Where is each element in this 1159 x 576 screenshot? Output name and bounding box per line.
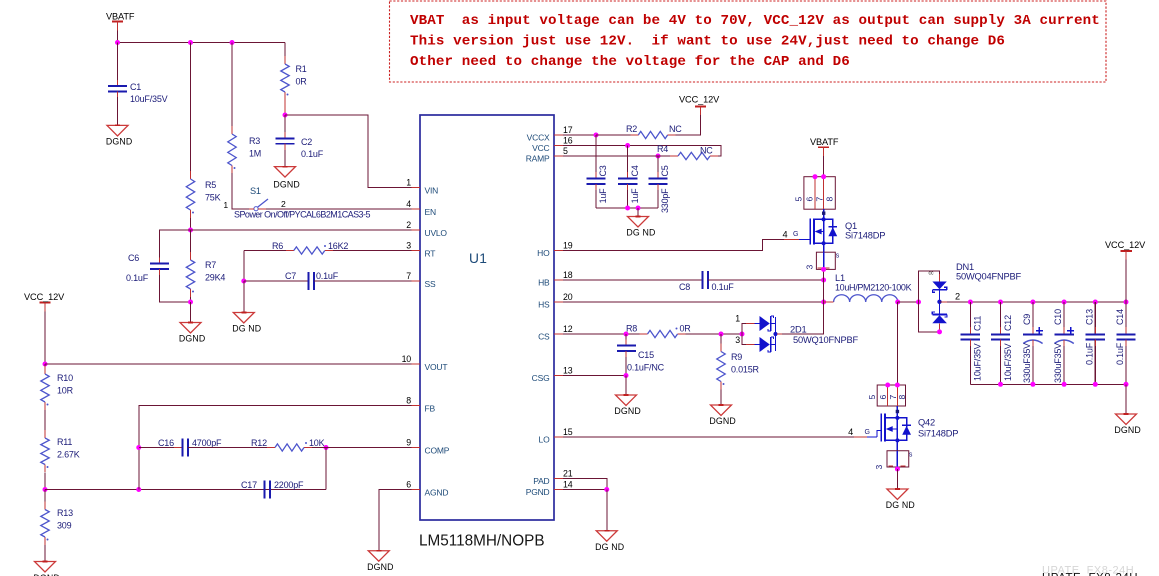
svg-text:UPATE FX8-24H: UPATE FX8-24H xyxy=(1042,573,1138,576)
svg-text:15: 15 xyxy=(563,427,573,437)
wire output rail xyxy=(970,301,1126,303)
wire VBATF bus xyxy=(118,42,286,44)
wire C3 drop xyxy=(595,135,597,179)
capacitor C3 xyxy=(586,178,605,180)
power VCC_12V (out) xyxy=(1121,250,1132,252)
capacitor C14 xyxy=(1124,300,1129,305)
pin 10 VOUT xyxy=(412,363,421,365)
svg-text:This version just use 12V. if: This version just use 12V. if want to us… xyxy=(410,34,1005,50)
ground DGND (C3C4C5) xyxy=(628,217,649,228)
wire C2 bottom xyxy=(284,144,286,167)
wire R11 bottom xyxy=(44,473,46,490)
svg-text:R9: R9 xyxy=(731,352,742,362)
svg-text:20: 20 xyxy=(563,292,573,302)
svg-text:VBATF: VBATF xyxy=(810,137,839,147)
svg-text:5: 5 xyxy=(867,395,877,400)
wire C15 top xyxy=(625,334,627,346)
svg-text:NC: NC xyxy=(700,146,713,156)
capacitor C9 xyxy=(1030,300,1035,305)
svg-text:RT: RT xyxy=(425,249,436,259)
wire VCCX-R2 xyxy=(596,134,630,136)
wire COMP xyxy=(312,447,412,449)
node bus-R5 xyxy=(188,40,193,45)
pin 2 UVLO xyxy=(412,229,421,231)
svg-text:4: 4 xyxy=(783,230,788,240)
node L1-Q42 xyxy=(895,300,900,305)
wire R1 top xyxy=(284,43,286,57)
node bus-C1 xyxy=(115,40,120,45)
wire C16 left xyxy=(139,447,183,449)
power VBATF (input) xyxy=(112,20,123,22)
node FB-C16 xyxy=(136,445,141,450)
svg-text:S1: S1 xyxy=(250,186,261,196)
svg-text:R3: R3 xyxy=(249,136,260,146)
svg-text:6: 6 xyxy=(406,480,411,490)
pin 1 VIN xyxy=(412,187,421,189)
svg-text:1uF: 1uF xyxy=(598,188,608,204)
svg-text:10uF/35V: 10uF/35V xyxy=(973,343,983,381)
svg-text:HO: HO xyxy=(537,248,550,258)
svg-text:Q42: Q42 xyxy=(918,418,935,428)
svg-text:SPower On/Off/PYCAL6B2M1CAS3-5: SPower On/Off/PYCAL6B2M1CAS3-5 xyxy=(234,210,370,220)
pin 20 HS xyxy=(554,301,563,303)
wire SS right xyxy=(314,280,412,282)
svg-text:16: 16 xyxy=(563,136,573,146)
svg-text:2D1: 2D1 xyxy=(790,325,806,335)
svg-text:8: 8 xyxy=(897,395,907,400)
wire C1 bottom xyxy=(117,91,119,125)
svg-text:17: 17 xyxy=(563,125,573,135)
wire R9 top xyxy=(720,334,722,344)
svg-text:R7: R7 xyxy=(205,260,216,270)
capacitor C5 xyxy=(648,178,667,180)
wire C5 drop xyxy=(657,156,659,179)
capacitor C10 xyxy=(1062,300,1067,305)
svg-text:C12: C12 xyxy=(1003,315,1013,331)
svg-text:C14: C14 xyxy=(1115,309,1125,325)
svg-text:R4: R4 xyxy=(657,144,668,154)
svg-text:10R: 10R xyxy=(57,386,74,396)
capacitor C8 xyxy=(702,271,704,289)
ground DGND (C15) xyxy=(616,395,637,406)
svg-text:2: 2 xyxy=(406,220,411,230)
svg-text:50WQ04FNPBF: 50WQ04FNPBF xyxy=(956,272,1021,282)
wire VIN route xyxy=(285,115,412,188)
svg-text:2: 2 xyxy=(955,292,960,302)
svg-text:DGND: DGND xyxy=(273,180,300,190)
svg-text:0.1uF: 0.1uF xyxy=(1115,342,1125,365)
svg-text:CSG: CSG xyxy=(532,373,550,383)
resistor R13 xyxy=(44,502,46,510)
svg-text:VOUT: VOUT xyxy=(425,362,448,372)
svg-text:C3: C3 xyxy=(598,165,608,176)
transistor Q42 drain box xyxy=(877,385,905,406)
svg-text:VCC_12V: VCC_12V xyxy=(24,292,65,302)
pin 18 HB xyxy=(554,279,563,281)
svg-text:C8: C8 xyxy=(679,282,690,292)
svg-text:330uF35V: 330uF35V xyxy=(1022,343,1032,383)
resistor R6 xyxy=(286,250,294,252)
pin 3 RT xyxy=(412,250,421,252)
svg-text:LM5118MH/NOPB: LM5118MH/NOPB xyxy=(419,533,545,550)
node FB-bottom xyxy=(136,487,141,492)
svg-text:R2: R2 xyxy=(626,124,637,134)
svg-text:R13: R13 xyxy=(57,508,73,518)
ground DGND (C1) xyxy=(107,125,128,135)
svg-text:0.1uF: 0.1uF xyxy=(301,149,324,159)
wire LO xyxy=(563,436,854,438)
svg-text:5: 5 xyxy=(794,197,804,202)
svg-text:VCC: VCC xyxy=(532,143,549,153)
svg-text:R8: R8 xyxy=(626,324,637,334)
wire EN xyxy=(266,208,412,210)
resistor R3 xyxy=(231,126,233,134)
svg-text:10uF/35V: 10uF/35V xyxy=(130,94,168,104)
wire R13 bottom xyxy=(44,545,46,562)
svg-text:FB: FB xyxy=(425,404,436,414)
node bus-R3 xyxy=(230,40,235,45)
svg-text:NC: NC xyxy=(669,124,682,134)
svg-text:R6: R6 xyxy=(272,241,283,251)
power VCC_12V (top) xyxy=(695,105,706,107)
wire UVLO xyxy=(191,229,412,231)
resistor R8 xyxy=(640,333,648,335)
ground DGND (R9) xyxy=(711,405,732,416)
wire bottom row xyxy=(45,489,265,491)
wire caprail gnd stub xyxy=(1125,384,1127,414)
wire FB xyxy=(139,406,412,490)
ground DGND (R7/C6) xyxy=(180,323,201,334)
svg-text:6: 6 xyxy=(805,197,815,202)
node COMP junction xyxy=(324,445,329,450)
svg-text:0.1uF: 0.1uF xyxy=(1084,342,1094,365)
svg-text:4: 4 xyxy=(848,427,853,437)
svg-text:DG ND: DG ND xyxy=(626,228,655,238)
pin 9 COMP xyxy=(412,447,421,449)
wire R5 bottom xyxy=(190,218,192,230)
svg-text:VCC_12V: VCC_12V xyxy=(679,95,720,105)
svg-text:C15: C15 xyxy=(638,350,654,360)
svg-text:R5: R5 xyxy=(205,180,216,190)
transistor Q1 source box xyxy=(823,243,825,252)
svg-text:330pF: 330pF xyxy=(660,188,670,213)
node 2D1 junction xyxy=(740,332,745,337)
diode 2D1 anode wires xyxy=(742,324,746,335)
wire C16-R12 xyxy=(188,447,267,449)
resistor R1 xyxy=(284,56,286,64)
svg-text:3: 3 xyxy=(735,335,740,345)
node DN1 anode hook xyxy=(916,300,921,305)
transistor Q42 source box xyxy=(896,440,898,450)
svg-text:DG ND: DG ND xyxy=(232,324,261,334)
node CS-C15 xyxy=(624,332,629,337)
wire R13 top xyxy=(44,490,46,502)
wire C6 branch xyxy=(160,230,191,264)
node R1-C2-VIN xyxy=(283,113,288,118)
svg-text:8: 8 xyxy=(406,396,411,406)
svg-text:G: G xyxy=(793,231,798,238)
resistor R2 xyxy=(630,134,638,136)
wire DN1 out xyxy=(940,301,971,303)
svg-text:10uF/35V: 10uF/35V xyxy=(1003,343,1013,381)
svg-text:Q1: Q1 xyxy=(845,221,857,231)
wire VCCX xyxy=(563,134,596,136)
svg-text:R11: R11 xyxy=(57,437,72,447)
capacitor C17 xyxy=(264,481,266,499)
svg-text:12: 12 xyxy=(563,324,573,334)
wire RAMP-R4 xyxy=(650,155,670,157)
svg-text:C9: C9 xyxy=(1022,314,1032,325)
svg-text:cc: cc xyxy=(929,271,935,277)
svg-text:VCCX: VCCX xyxy=(527,132,550,142)
resistor R7 xyxy=(190,252,192,260)
svg-text:4700pF: 4700pF xyxy=(192,438,222,448)
svg-text:7: 7 xyxy=(406,271,411,281)
node UVLO junction xyxy=(188,228,193,233)
svg-text:L1: L1 xyxy=(835,273,845,283)
svg-text:18: 18 xyxy=(563,270,573,280)
resistor R9 xyxy=(720,344,722,352)
resistor R10 xyxy=(44,366,46,374)
wire C6 bottom xyxy=(160,269,191,302)
wire VCC12 out drop xyxy=(1125,260,1127,303)
capacitor C6 xyxy=(150,263,169,265)
power VBATF (Q1) xyxy=(818,146,829,148)
svg-text:C16: C16 xyxy=(158,438,174,448)
svg-text:VCC_12V: VCC_12V xyxy=(1105,240,1146,250)
svg-text:0R: 0R xyxy=(296,77,308,87)
svg-text:DG ND: DG ND xyxy=(595,542,624,552)
svg-text:C2: C2 xyxy=(301,137,312,147)
wire gnd stub (R7) xyxy=(190,302,192,323)
svg-text:R1: R1 xyxy=(296,64,307,74)
transistor Q1 drain box xyxy=(804,177,835,210)
svg-text:Si7148DP: Si7148DP xyxy=(918,429,958,439)
wire C17 row xyxy=(265,489,327,491)
node VCCX-C3 xyxy=(594,133,599,138)
node PAD-PGND xyxy=(604,487,609,492)
wire CS xyxy=(563,333,648,335)
wire gnd stub (Q42) xyxy=(896,469,898,489)
power VCC_12V (left) xyxy=(39,301,50,303)
svg-text:C4: C4 xyxy=(630,165,640,176)
capacitor C11 xyxy=(968,300,973,305)
ground DGND (PGND) xyxy=(596,531,617,542)
capacitor C16 xyxy=(182,439,184,457)
svg-text:6: 6 xyxy=(878,395,888,400)
wire Q1 source drop xyxy=(823,269,825,302)
wire HS xyxy=(563,301,824,303)
svg-text:1uF: 1uF xyxy=(630,188,640,204)
node R7-C6-gnd xyxy=(188,300,193,305)
svg-text:RAMP: RAMP xyxy=(526,153,550,163)
node R9 junction xyxy=(719,332,724,337)
svg-text:21: 21 xyxy=(563,469,573,479)
pin 14 PGND xyxy=(554,489,563,491)
svg-text:19: 19 xyxy=(563,241,573,251)
wire R6 left xyxy=(243,251,245,282)
pin 19 HO xyxy=(554,250,563,252)
wire PGND xyxy=(563,489,607,491)
wire HB xyxy=(563,279,703,281)
svg-text:HB: HB xyxy=(538,277,550,287)
svg-text:VBATF: VBATF xyxy=(106,12,135,22)
svg-text:0.015R: 0.015R xyxy=(731,365,760,375)
diode 2D1 pair xyxy=(760,316,770,331)
pin 16 VCC xyxy=(554,145,563,147)
svg-text:309: 309 xyxy=(57,521,72,531)
ground DGND (AGND) xyxy=(368,551,389,562)
resistor R12 xyxy=(267,447,275,449)
transistor Q1 symbol xyxy=(809,219,811,245)
svg-text:0.1uF/NC: 0.1uF/NC xyxy=(627,363,665,373)
wire R3 to S1 xyxy=(232,173,249,209)
svg-text:C13: C13 xyxy=(1084,309,1094,325)
wire Q42 drain drop xyxy=(896,302,898,385)
svg-text:C11: C11 xyxy=(973,316,983,331)
svg-text:VBAT as input voltage can be: VBAT as input voltage can be 4V to 70V, … xyxy=(410,13,1100,29)
svg-text:9: 9 xyxy=(406,438,411,448)
svg-text:0.1uF: 0.1uF xyxy=(126,273,149,283)
wire VBATF stub xyxy=(117,31,119,43)
pin 12 CS xyxy=(554,333,563,335)
wire gnd stub (PGND) xyxy=(606,490,608,531)
node RAMP-C5 xyxy=(656,154,661,159)
svg-text:10uH/PM2120-100K: 10uH/PM2120-100K xyxy=(835,283,912,293)
wire VBATF-Q1 xyxy=(823,156,825,177)
svg-text:14: 14 xyxy=(563,480,573,490)
svg-text:3: 3 xyxy=(406,241,411,251)
pin 4 EN xyxy=(412,208,421,210)
wire R10 top xyxy=(44,364,46,366)
pin 17 VCCX xyxy=(554,134,563,136)
pin 21 PAD xyxy=(554,478,563,480)
svg-text:C7: C7 xyxy=(285,271,296,281)
wire C15 bottom xyxy=(625,351,627,376)
node VCC-C4 xyxy=(625,143,630,148)
svg-text:C17: C17 xyxy=(241,480,257,490)
note box xyxy=(390,1,1107,82)
svg-text:PAD: PAD xyxy=(533,476,549,486)
wire R7 bottom xyxy=(190,297,192,302)
svg-text:CS: CS xyxy=(538,331,550,341)
svg-text:3: 3 xyxy=(874,465,884,470)
ground DGND (C7) xyxy=(233,313,254,324)
svg-text:29K4: 29K4 xyxy=(205,273,225,283)
svg-text:1M: 1M xyxy=(249,149,261,159)
svg-text:DG ND: DG ND xyxy=(886,500,915,510)
svg-text:G: G xyxy=(865,429,870,436)
svg-text:1: 1 xyxy=(406,178,411,188)
wire CSG xyxy=(563,375,626,377)
svg-text:HS: HS xyxy=(538,299,550,309)
wire C2 top xyxy=(284,115,286,138)
svg-text:2: 2 xyxy=(281,199,286,209)
svg-text:3: 3 xyxy=(804,265,814,270)
wire R3 top xyxy=(231,43,233,127)
capacitor C4 xyxy=(618,178,637,180)
svg-text:7: 7 xyxy=(815,197,825,202)
transistor Q42 symbol xyxy=(880,413,882,441)
inductor L1 xyxy=(834,295,898,302)
svg-text:75K: 75K xyxy=(205,193,221,203)
svg-text:DGND: DGND xyxy=(614,406,641,416)
capacitor C15 xyxy=(617,345,636,347)
svg-text:C6: C6 xyxy=(128,253,139,263)
ground DGND (Q42) xyxy=(887,489,908,500)
node HS junction xyxy=(821,300,826,305)
svg-text:1: 1 xyxy=(223,200,228,210)
wire AGND xyxy=(379,490,412,551)
node gndbus-stub xyxy=(636,206,641,211)
svg-text:U1: U1 xyxy=(469,251,487,266)
node C4-gndbus xyxy=(625,206,630,211)
svg-text:DN1: DN1 xyxy=(956,262,974,272)
wire VOUT xyxy=(45,363,412,365)
capacitor C2 xyxy=(275,137,294,139)
wire RAMP xyxy=(563,155,650,157)
svg-text:DGND: DGND xyxy=(709,416,736,426)
wire C4 drop xyxy=(627,146,629,179)
capacitor C13 xyxy=(1093,300,1098,305)
node VOUT junction xyxy=(43,362,48,367)
wire 2D1 out xyxy=(777,333,782,335)
node HB junction xyxy=(821,278,826,283)
wire C3C4C5 gnd bus xyxy=(596,207,658,209)
wire R8-2D1 xyxy=(686,333,743,335)
svg-text:COMP: COMP xyxy=(425,446,450,456)
svg-text:13: 13 xyxy=(563,366,573,376)
svg-text:5: 5 xyxy=(563,146,568,156)
svg-text:DGND: DGND xyxy=(367,562,394,572)
diode DN1 lower xyxy=(939,302,941,315)
wire SS left xyxy=(244,280,309,282)
node DN1 cathode xyxy=(937,300,941,304)
wire gnd stub (C345) xyxy=(637,208,639,217)
resistor R11 xyxy=(44,430,46,438)
svg-text:DGND: DGND xyxy=(106,136,133,146)
svg-text:0.1uF: 0.1uF xyxy=(712,282,735,292)
wire VCC row xyxy=(563,146,721,157)
svg-text:10K: 10K xyxy=(309,438,325,448)
svg-text:Si7148DP: Si7148DP xyxy=(845,231,885,241)
op-amp U1 body xyxy=(420,115,554,520)
svg-text:SS: SS xyxy=(425,279,436,289)
svg-text:0R: 0R xyxy=(680,324,692,334)
wire R6 lead-left xyxy=(244,250,286,252)
svg-text:2.67K: 2.67K xyxy=(57,450,80,460)
pin 8 FB xyxy=(412,405,421,407)
svg-text:50WQ10FNPBF: 50WQ10FNPBF xyxy=(793,335,858,345)
svg-text:DGND: DGND xyxy=(1114,425,1141,435)
wire RT xyxy=(333,250,412,252)
svg-text:R12: R12 xyxy=(251,438,267,448)
svg-text:VIN: VIN xyxy=(425,186,439,196)
pin 5 RAMP xyxy=(554,155,563,157)
svg-text:LO: LO xyxy=(539,434,551,444)
pin 7 SS xyxy=(412,280,421,282)
capacitor C12 xyxy=(998,300,1003,305)
wire gnd stub (C15) xyxy=(625,376,627,396)
node CSG-C15 xyxy=(624,373,629,378)
svg-text:16K2: 16K2 xyxy=(328,241,348,251)
capacitor C7 xyxy=(308,272,310,290)
wire COMP-C17 drop xyxy=(325,448,327,490)
ground DGND (C2) xyxy=(275,167,296,178)
wire cap gnd rail xyxy=(970,383,1126,385)
ground DGND (R13) xyxy=(35,562,56,573)
svg-text:2200pF: 2200pF xyxy=(274,480,304,490)
